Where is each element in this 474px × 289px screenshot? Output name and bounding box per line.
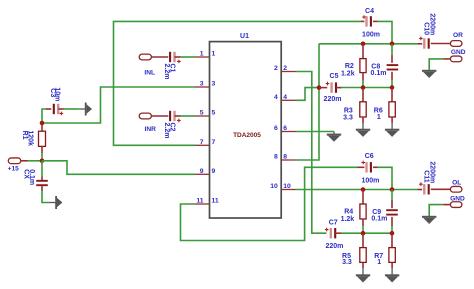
- svg-text:2: 2: [283, 65, 287, 72]
- svg-text:120k: 120k: [26, 130, 33, 146]
- resistor R1 120k: [41, 123, 43, 131]
- junction R2/R3 node: [361, 85, 366, 90]
- port GND: [450, 202, 462, 208]
- resistor R2: [360, 59, 366, 73]
- svg-text:C7: C7: [329, 220, 338, 227]
- svg-text:3: 3: [212, 81, 216, 88]
- junction +15 / R1 / CX / pin9: [40, 159, 45, 164]
- IC pin stubs left: [195, 56, 210, 58]
- svg-text:U1: U1: [240, 33, 249, 40]
- ground below R6: [385, 129, 399, 131]
- junction R4/R5 node: [361, 231, 366, 236]
- capacitor C7: [334, 228, 336, 238]
- wire +15 to node: [21, 160, 28, 162]
- bottom output rail pin10: [296, 189, 418, 191]
- svg-text:1: 1: [212, 51, 216, 58]
- svg-text:C4: C4: [365, 8, 374, 15]
- port OR: [450, 41, 462, 47]
- svg-text:3.3: 3.3: [343, 114, 353, 121]
- capacitor C11 2200m: [418, 189, 423, 191]
- svg-text:GND: GND: [450, 196, 465, 203]
- junction rail / C4 / C8: [390, 42, 395, 47]
- IC pin stubs right: [281, 71, 295, 73]
- svg-text:4: 4: [274, 94, 278, 101]
- ground below R3: [356, 129, 370, 131]
- wire C3 left down to node: [42, 109, 46, 123]
- capacitor CX 0.1m: [41, 161, 43, 177]
- resistor R4: [360, 204, 366, 219]
- svg-text:R4: R4: [344, 209, 353, 216]
- svg-text:6: 6: [274, 125, 278, 132]
- capacitor C3 10m: [46, 108, 51, 110]
- capacitor C1: [169, 52, 171, 62]
- svg-text:GND: GND: [451, 49, 466, 56]
- svg-text:1: 1: [200, 51, 204, 58]
- svg-text:0.1m: 0.1m: [371, 70, 387, 77]
- svg-text:10: 10: [283, 183, 291, 190]
- svg-text:10m: 10m: [54, 87, 61, 101]
- svg-text:0.1m: 0.1m: [371, 215, 387, 222]
- port +15: [8, 158, 20, 164]
- svg-text:C10: C10: [423, 22, 430, 35]
- ground below R7: [385, 274, 399, 276]
- junction pin4/pin8/C5/rail: [317, 85, 322, 90]
- svg-text:3.3: 3.3: [342, 259, 352, 266]
- svg-text:INR: INR: [145, 126, 157, 133]
- resistor R7 1: [391, 233, 393, 247]
- capacitor C6 100m: [358, 166, 365, 168]
- svg-text:R2: R2: [345, 63, 354, 70]
- port GND: [450, 56, 462, 62]
- wire pin6 to ground: [296, 131, 335, 133]
- svg-text:OL: OL: [452, 180, 461, 187]
- wire pin7 / C4 left : top-left corner: [114, 21, 362, 145]
- svg-text:2: 2: [274, 65, 278, 72]
- svg-text:10: 10: [270, 183, 278, 190]
- svg-text:C11: C11: [423, 170, 430, 183]
- junction rail / C6 / C9: [390, 187, 395, 192]
- resistor R4 1.2k: [362, 190, 364, 205]
- middle feedback row: [341, 87, 392, 89]
- svg-text:220m: 220m: [324, 96, 342, 103]
- capacitor C11: [428, 184, 430, 194]
- junction C8/R6 node: [390, 85, 395, 90]
- wire C4 branch: [361, 20, 364, 22]
- capacitor C8: [387, 64, 399, 66]
- svg-text:8: 8: [283, 154, 287, 161]
- wire pin4 to junction: [296, 88, 320, 101]
- svg-text:6: 6: [283, 125, 287, 132]
- wire pin8 up to junction: [296, 44, 320, 160]
- svg-text:2200m: 2200m: [429, 13, 436, 35]
- wire GND bottom to ground: [444, 204, 451, 206]
- svg-text:5: 5: [212, 110, 216, 117]
- port OL: [450, 186, 462, 192]
- svg-text:4: 4: [283, 94, 287, 101]
- svg-text:1.2k: 1.2k: [341, 71, 355, 78]
- svg-text:220m: 220m: [325, 243, 343, 250]
- resistor R6 1: [391, 88, 393, 102]
- wire C3 right to ground: [58, 108, 63, 110]
- wire GND top to ground: [444, 58, 451, 60]
- resistor R6: [389, 102, 395, 117]
- svg-text:7: 7: [200, 139, 204, 146]
- capacitor C5: [335, 82, 337, 92]
- resistor R5: [360, 248, 366, 263]
- resistor R2 1.2k: [362, 44, 364, 59]
- port INL: [139, 54, 151, 60]
- svg-text:7: 7: [212, 139, 216, 146]
- svg-text:5: 5: [200, 110, 204, 117]
- ground OR return: [422, 70, 436, 72]
- capacitor C10 2200m: [418, 43, 423, 45]
- ground near C3: [85, 103, 87, 116]
- wire +15 node to pin 9: [42, 161, 195, 175]
- resistor R7: [389, 248, 395, 263]
- capacitor C2: [169, 111, 171, 121]
- wire INR to C2: [151, 115, 168, 117]
- svg-text:INL: INL: [144, 69, 155, 76]
- svg-text:11: 11: [196, 198, 203, 205]
- resistor R5 3.3: [362, 233, 364, 247]
- svg-text:C5: C5: [330, 73, 339, 80]
- junction C9/R7 node: [390, 231, 395, 236]
- svg-text:1.2k: 1.2k: [341, 216, 355, 223]
- svg-text:9: 9: [212, 168, 216, 175]
- junction R1 top / C3 / pin3: [40, 121, 45, 126]
- svg-text:3: 3: [200, 81, 204, 88]
- resistor R1: [39, 131, 46, 146]
- resistor R3 3.3: [362, 88, 364, 102]
- wire pin3: [42, 87, 195, 123]
- svg-text:11: 11: [212, 198, 219, 205]
- capacitor C9 0.1m: [391, 190, 393, 201]
- resistor R3: [360, 102, 366, 117]
- svg-text:2200m: 2200m: [429, 161, 436, 183]
- wire C2 to pin 5: [175, 115, 181, 117]
- ground below R5: [356, 274, 370, 276]
- svg-text:C6: C6: [365, 153, 374, 160]
- svg-text:TDA2005: TDA2005: [233, 132, 261, 139]
- svg-text:+15: +15: [8, 166, 20, 173]
- junction rail / R4: [361, 187, 366, 192]
- capacitor C4: [370, 16, 372, 26]
- wire pin2 down to C7: [296, 72, 327, 234]
- top output rail: [319, 43, 418, 45]
- wire CX to ground: [41, 185, 43, 191]
- svg-text:1: 1: [377, 259, 381, 266]
- ground below CX: [55, 196, 57, 209]
- svg-text:1: 1: [377, 114, 381, 121]
- op-amp IC U1 TDA2005: [210, 42, 282, 218]
- capacitor C6: [370, 162, 372, 172]
- capacitor C3: [53, 104, 55, 114]
- capacitor C5 220m: [319, 87, 327, 89]
- svg-text:9: 9: [200, 168, 204, 175]
- svg-text:2.2m: 2.2m: [163, 64, 170, 80]
- capacitor C9: [386, 209, 398, 211]
- svg-text:OR: OR: [453, 32, 463, 39]
- wire pin11 to C6 (U path): [181, 167, 358, 240]
- capacitor C10: [428, 38, 430, 48]
- ground OL return: [422, 216, 436, 218]
- junction rail / R2: [361, 42, 366, 47]
- ground pin 6: [327, 134, 341, 136]
- bottom feedback row: [341, 232, 392, 234]
- svg-text:2.2m: 2.2m: [163, 123, 170, 139]
- svg-text:8: 8: [274, 154, 278, 161]
- svg-text:100m: 100m: [362, 32, 380, 39]
- capacitor CX: [36, 180, 48, 182]
- svg-text:100m: 100m: [361, 178, 379, 185]
- wire INL to C1: [151, 56, 168, 58]
- port INR: [139, 113, 151, 119]
- capacitor C8 0.1m: [391, 44, 393, 55]
- wire C1 to pin 1: [175, 56, 181, 58]
- svg-text:0.1m: 0.1m: [28, 169, 35, 185]
